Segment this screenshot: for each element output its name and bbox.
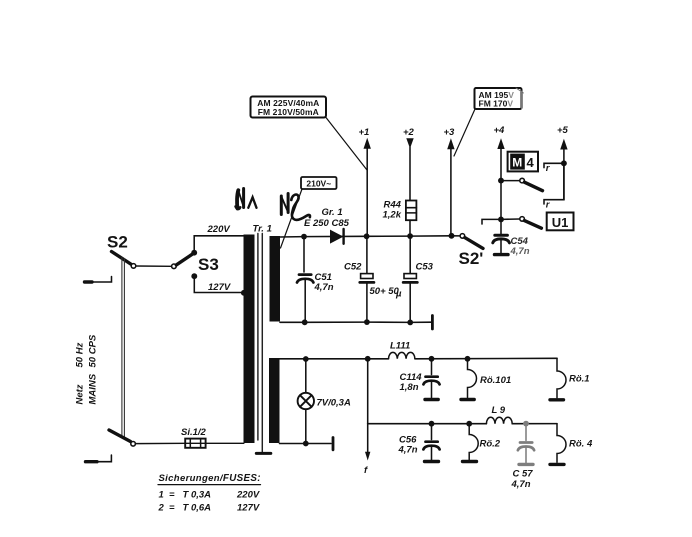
svg-text:1,2k: 1,2k (383, 210, 402, 221)
svg-text:E 250 C85: E 250 C85 (304, 218, 350, 229)
wire L9 to corner (512, 423, 557, 425)
heater Ro.1 (557, 358, 566, 398)
stub wire left of U1 junction (482, 219, 501, 224)
capacitor C57 (faint) (518, 424, 534, 463)
switch S2' contact circle (460, 234, 465, 239)
svg-text:L111: L111 (390, 341, 410, 352)
svg-text:4,7n: 4,7n (510, 246, 530, 257)
svg-text:Si.1/2: Si.1/2 (181, 427, 207, 438)
svg-text:Gr. 1: Gr. 1 (322, 207, 343, 218)
svg-text:f: f (364, 465, 368, 476)
ground Ro.101 (461, 398, 474, 401)
fuse Si.1/2 (185, 439, 205, 448)
terminal end of heater return (332, 438, 335, 450)
capacitor C53 electrolytic (403, 236, 417, 322)
heater Ro.4 (557, 424, 566, 463)
svg-text:7V/0,3A: 7V/0,3A (317, 398, 351, 409)
switch U1 blade (524, 221, 541, 229)
resistor R44 (406, 201, 417, 237)
svg-text:C53: C53 (416, 262, 434, 273)
diode Gr.1 (330, 230, 343, 244)
svg-text:+4: +4 (494, 125, 506, 136)
callout box 210V~ (301, 177, 337, 189)
ground C57 (faint) (519, 463, 533, 466)
node S2' bus junction (449, 233, 455, 239)
svg-text:S2': S2' (459, 249, 484, 268)
wire fuse to transformer (206, 442, 244, 444)
ground C54 (495, 253, 509, 256)
wire to U1 switch contact (501, 218, 520, 220)
svg-text:L 9: L 9 (492, 405, 506, 416)
arrow +2 (down) (406, 138, 413, 148)
wire 220V tap to transformer (194, 236, 244, 253)
svg-text:4: 4 (527, 155, 535, 170)
terminal end of return bus (431, 316, 434, 330)
handwritten mark N2 (281, 194, 310, 220)
svg-text:Sicherungen/FUSES:: Sicherungen/FUSES: (159, 473, 261, 484)
node R44/C53 bus junction (407, 233, 413, 239)
svg-text:C 57: C 57 (513, 469, 534, 480)
switch M4 blade (524, 182, 542, 191)
handwritten mark N1 (236, 189, 257, 209)
svg-text:4,7n: 4,7n (398, 445, 418, 456)
inductor L9 (486, 417, 512, 423)
svg-text:S3: S3 (198, 255, 219, 274)
wire f branch (367, 359, 369, 424)
ground C56 (425, 460, 439, 463)
switch S2 lower contact circle (131, 442, 136, 447)
svg-text:M: M (512, 155, 522, 169)
ground Ro.4 (550, 463, 564, 466)
svg-text:C52: C52 (344, 262, 362, 273)
node f junction (365, 356, 371, 362)
svg-text:50 Hz: 50 Hz (75, 342, 86, 367)
svg-text:1,8n: 1,8n (400, 382, 419, 393)
mains terminal stub lower (86, 455, 112, 462)
ground Ro.2 (463, 460, 477, 463)
mechanical coupling double line of S2 (122, 258, 125, 438)
node C52 bottom junction (364, 319, 370, 325)
ground Ro.1 (550, 398, 564, 401)
svg-text:FM 210V/50mA: FM 210V/50mA (258, 107, 319, 117)
svg-text:Rö.101: Rö.101 (480, 375, 511, 386)
svg-text:µ: µ (395, 289, 402, 300)
node Ro2 junction (466, 421, 472, 427)
node C51 bottom junction (302, 319, 308, 325)
node U1 switch junction on +4 (498, 216, 504, 222)
svg-text:Rö. 4: Rö. 4 (569, 439, 593, 450)
svg-text:+3: +3 (444, 127, 456, 138)
leader line AM195 box to +3 (454, 109, 475, 156)
node lamp bottom (303, 441, 309, 447)
wire to S2' contact (452, 235, 461, 237)
mains terminal stub upper (85, 277, 112, 283)
node C57 junction (faint) (523, 421, 529, 427)
transformer Tr.1 primary winding (244, 235, 255, 444)
heater Ro.2 (469, 424, 478, 460)
svg-text:2 = T 0,6A: 2 = T 0,6A (158, 503, 212, 514)
arrow +4 (497, 138, 504, 149)
svg-text:FM 170V: FM 170V (479, 99, 514, 109)
switch U1 contact circle (520, 217, 525, 222)
svg-text:Tr. 1: Tr. 1 (253, 224, 272, 235)
node diode anode junction (301, 234, 307, 240)
svg-text:127V: 127V (237, 503, 260, 514)
svg-text:r: r (546, 200, 551, 211)
wire S2 to S3 (136, 265, 172, 267)
leader line 210V~ to secondary (281, 189, 303, 248)
node M4 switch junction on +4 (498, 178, 504, 184)
svg-text:S2: S2 (107, 233, 128, 252)
wire L111 to corner (415, 357, 557, 360)
arrow +3 (447, 138, 454, 149)
switch S2 upper contact circle (131, 264, 136, 269)
inductor L111 (388, 352, 414, 358)
node lamp top (303, 356, 309, 362)
lamp 7V/0,3A (298, 359, 314, 444)
arrow f (367, 424, 369, 452)
switch S3 contact circle (172, 264, 177, 269)
ground C114 (425, 398, 438, 401)
svg-text:+2: +2 (403, 127, 415, 138)
wire bottom return bus (305, 321, 431, 323)
svg-text:220V: 220V (236, 490, 260, 501)
transformer secondary winding lower (269, 358, 280, 443)
arrow +1 (364, 138, 371, 149)
transformer secondary winding upper (270, 236, 281, 322)
svg-text:4,7n: 4,7n (314, 282, 334, 293)
svg-text:U1: U1 (552, 215, 569, 230)
callout box AM 225V/40mA FM 210V/50mA (251, 97, 327, 118)
node C56 junction (429, 421, 435, 427)
wire heater row 1 (280, 358, 389, 360)
switch S2' blade (465, 238, 483, 249)
heater Ro.101 (468, 359, 477, 398)
wire secondary bottom to terminal (280, 443, 332, 445)
secondary bottom wire to bus (280, 321, 305, 323)
node Ro101 junction (465, 356, 471, 362)
wire +5 to lower r contact (544, 163, 564, 204)
wire +5 to upper r contact (544, 163, 564, 167)
svg-text:Rö.1: Rö.1 (569, 374, 590, 385)
capacitor C51 (297, 237, 313, 322)
svg-text:210V~: 210V~ (306, 178, 331, 188)
switch S3 blade (176, 254, 193, 265)
svg-text:1 = T 0,3A: 1 = T 0,3A (159, 490, 212, 501)
leader line AM box to +1 (326, 118, 367, 170)
node junction on primary 127V (241, 290, 247, 296)
capacitor C56 (423, 424, 439, 460)
transformer core lines (258, 234, 262, 453)
svg-text:MAINS: MAINS (88, 373, 99, 404)
capacitor C52 electrolytic (360, 236, 374, 322)
svg-text:r: r (546, 163, 551, 174)
node +1/C52 bus junction (364, 233, 370, 239)
svg-text:Netz: Netz (75, 384, 86, 404)
svg-text:4,7n: 4,7n (511, 479, 531, 490)
capacitor C114 (423, 359, 439, 398)
wire heater row 2 (368, 423, 487, 425)
relay label box U1 (547, 213, 574, 231)
wire to M4 switch contact (501, 180, 520, 182)
svg-text:220V: 220V (207, 224, 231, 235)
svg-text:50 CPS: 50 CPS (88, 334, 99, 367)
svg-text:Rö.2: Rö.2 (480, 439, 501, 450)
switch S2 lower blade (109, 430, 131, 442)
switch S2 upper blade (112, 252, 132, 265)
transformer core ground bar (256, 452, 271, 455)
svg-text:+1: +1 (359, 127, 370, 138)
wire main HT bus (304, 235, 452, 238)
callout box AM 195V FM 170V (475, 88, 522, 109)
relay label box M4 (508, 152, 538, 172)
svg-text:127V: 127V (208, 282, 231, 293)
node 127V tap dot (191, 273, 197, 279)
node 220V tap dot (191, 250, 197, 256)
node C114 junction (429, 356, 435, 362)
switch M4 contact circle (520, 178, 525, 183)
svg-text:+5: +5 (557, 125, 569, 136)
wire S2 to fuse (135, 442, 185, 444)
wire secondary top to bus (280, 236, 304, 238)
wire 127V tap to transformer (194, 276, 244, 292)
capacitor C54 (493, 235, 510, 252)
arrow +5 (560, 139, 567, 150)
node +5 r-contact junction (561, 160, 567, 166)
node C53 bottom junction (407, 320, 413, 326)
